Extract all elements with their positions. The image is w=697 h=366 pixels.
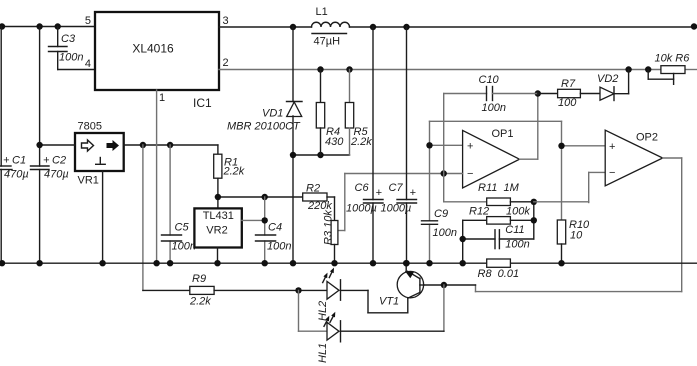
node R9 feed bbox=[140, 142, 146, 148]
node VT1 base branch bbox=[441, 282, 447, 288]
wire C2 branch bbox=[39, 27, 41, 264]
svg-text:VR1: VR1 bbox=[78, 175, 99, 187]
node HL1 feed bbox=[295, 287, 301, 293]
capacitor C11 bbox=[463, 224, 534, 251]
node C4 top bbox=[262, 194, 268, 200]
wire 7805 output 5V bbox=[124, 142, 218, 148]
wire pin1 to ground bbox=[156, 90, 158, 263]
node gnd pin1 bbox=[153, 260, 159, 266]
node gnd C9 bbox=[426, 260, 432, 266]
wire OP2 inverting feed bbox=[534, 172, 605, 202]
capacitor C2 bbox=[31, 155, 69, 181]
node gnd C1 bbox=[0, 260, 5, 266]
svg-text:100n: 100n bbox=[267, 241, 291, 253]
node gnd C7 bbox=[403, 260, 409, 266]
node gnd C5 bbox=[167, 260, 173, 266]
svg-text:VT1: VT1 bbox=[379, 296, 399, 308]
resistor R7 bbox=[538, 78, 600, 109]
svg-text:100n: 100n bbox=[505, 239, 529, 251]
node VD2 cathode rail bbox=[625, 66, 631, 72]
wire R9 feed bbox=[142, 145, 144, 290]
wire R12 C11 left vertical bbox=[460, 220, 466, 263]
node output terminal bbox=[691, 23, 697, 29]
svg-text:5: 5 bbox=[85, 15, 91, 27]
wire R11 feed bbox=[444, 174, 487, 202]
capacitor C10 bbox=[444, 74, 538, 174]
IC U1 XL4016 bbox=[85, 12, 229, 110]
svg-text:TL431: TL431 bbox=[203, 210, 234, 222]
svg-text:10k R6: 10k R6 bbox=[655, 53, 691, 65]
node R5 top bbox=[346, 66, 352, 72]
resistor R8 shunt bbox=[478, 259, 520, 280]
svg-text:VD1: VD1 bbox=[262, 108, 283, 120]
resistor R12 bbox=[463, 206, 534, 225]
regulator VR1 7805 bbox=[75, 121, 124, 187]
svg-text:OP2: OP2 bbox=[636, 132, 658, 144]
svg-text:100n: 100n bbox=[59, 52, 83, 64]
wire OP1 plus to OP2 plus link bbox=[430, 121, 606, 220]
node TL431 ref bbox=[262, 217, 268, 223]
svg-text:−: − bbox=[609, 167, 615, 179]
wire 7805 ground bbox=[102, 171, 104, 263]
node R4 bottom bbox=[317, 152, 323, 158]
wire OP2 output loop bbox=[476, 158, 682, 292]
svg-text:IC1: IC1 bbox=[193, 96, 212, 110]
wire OP1 output to node bbox=[520, 90, 542, 159]
capacitor C7 bbox=[381, 182, 417, 215]
svg-text:C1: C1 bbox=[12, 155, 26, 167]
svg-text:OP1: OP1 bbox=[492, 128, 514, 140]
resistor R2 bbox=[303, 183, 335, 221]
svg-text:R11 1M: R11 1M bbox=[478, 182, 520, 194]
wire pin3 switch node bbox=[219, 24, 312, 30]
svg-text:3: 3 bbox=[223, 15, 229, 27]
svg-text:2.2k: 2.2k bbox=[223, 166, 245, 178]
svg-text:100n: 100n bbox=[482, 102, 506, 114]
node OP1 out top bbox=[535, 90, 541, 96]
wire TL431 cathode node bbox=[215, 194, 303, 200]
transistor VT1 bbox=[368, 263, 424, 313]
node OP1 minus bbox=[441, 170, 447, 176]
svg-text:100: 100 bbox=[558, 97, 577, 109]
capacitor C6 bbox=[346, 182, 383, 215]
wire VD1 R4 R5 bottom bbox=[290, 152, 350, 158]
node input top-left bbox=[0, 23, 5, 29]
svg-text:VR2: VR2 bbox=[206, 225, 227, 237]
svg-text:R7: R7 bbox=[561, 78, 576, 90]
svg-text:2.2k: 2.2k bbox=[189, 296, 211, 308]
svg-text:C3: C3 bbox=[61, 33, 76, 45]
svg-text:1000µ: 1000µ bbox=[346, 203, 377, 215]
wire HL1 anode feed bbox=[299, 290, 328, 331]
resistor R5 bbox=[345, 70, 372, 156]
svg-text:XL4016: XL4016 bbox=[132, 42, 174, 56]
node gnd C2 bbox=[36, 260, 42, 266]
led HL1 bbox=[317, 312, 341, 363]
node C5 top bbox=[167, 142, 173, 148]
svg-text:R3 10k: R3 10k bbox=[323, 210, 335, 245]
diode VD2 bbox=[597, 70, 629, 101]
svg-text:1: 1 bbox=[159, 92, 165, 104]
svg-text:C10: C10 bbox=[479, 74, 500, 86]
svg-text:VD2: VD2 bbox=[597, 73, 618, 85]
node gnd R12 C11 bbox=[460, 260, 466, 266]
svg-text:C9: C9 bbox=[434, 208, 448, 220]
node VT1 emitter bbox=[403, 260, 409, 266]
node OP2 plus bbox=[558, 143, 564, 149]
svg-text:R2: R2 bbox=[306, 183, 320, 195]
capacitor C3 bbox=[49, 33, 84, 64]
svg-text:47µH: 47µH bbox=[314, 36, 341, 48]
node VD1 line bbox=[290, 152, 296, 158]
node 7805 input bbox=[36, 142, 42, 148]
svg-text:470µ: 470µ bbox=[44, 169, 69, 181]
wire R11 R12 C11 right node bbox=[531, 199, 537, 239]
svg-text:7805: 7805 bbox=[78, 121, 102, 133]
potentiometer R6 bbox=[648, 53, 690, 85]
svg-text:2: 2 bbox=[223, 57, 229, 69]
node gnd VD1 bbox=[290, 260, 296, 266]
svg-text:C6: C6 bbox=[355, 182, 370, 194]
wire C5 branch bbox=[169, 145, 171, 263]
node gnd C6 bbox=[370, 260, 376, 266]
svg-text:+: + bbox=[609, 141, 615, 153]
svg-text:HL1: HL1 bbox=[317, 343, 329, 363]
svg-text:L1: L1 bbox=[316, 6, 328, 18]
svg-text:C4: C4 bbox=[268, 222, 282, 234]
svg-text:+: + bbox=[410, 187, 417, 199]
IC VR2 TL431 bbox=[194, 208, 264, 263]
svg-text:2.2k: 2.2k bbox=[350, 136, 372, 148]
node R6 wiper rail bbox=[645, 66, 651, 72]
wire 7805 input bbox=[36, 142, 75, 148]
wire feedback R3 tap to OP1 inverting bbox=[338, 174, 444, 231]
node C3 top bbox=[55, 23, 61, 29]
node R12 right bbox=[531, 217, 537, 223]
node gnd R10 bbox=[558, 260, 564, 266]
node gnd 7805 bbox=[99, 260, 105, 266]
resistor R3 bbox=[323, 210, 338, 264]
node gnd C4 bbox=[262, 260, 268, 266]
svg-text:+: + bbox=[467, 140, 473, 152]
wire HL1 cathode return bbox=[341, 285, 444, 331]
wire VT1 base line bbox=[424, 282, 476, 288]
node gnd R3 bbox=[331, 260, 337, 266]
capacitor C5 bbox=[162, 222, 196, 253]
node OP1 plus bbox=[426, 142, 432, 148]
resistor R9 bbox=[143, 273, 327, 308]
svg-text:C11: C11 bbox=[505, 224, 524, 236]
svg-text:+: + bbox=[3, 155, 10, 167]
wire OP1 noninverting branch bbox=[426, 121, 462, 263]
capacitor C9 bbox=[422, 208, 457, 239]
node C6 top bbox=[370, 24, 376, 30]
svg-text:1000µ: 1000µ bbox=[381, 203, 412, 215]
svg-text:100n: 100n bbox=[172, 241, 196, 253]
svg-text:10: 10 bbox=[570, 230, 583, 242]
node C7 top bbox=[403, 24, 409, 30]
svg-text:+: + bbox=[376, 187, 383, 199]
svg-text:430: 430 bbox=[325, 136, 344, 148]
node R11 right bbox=[531, 199, 537, 205]
node R1 bottom bbox=[215, 194, 221, 200]
svg-text:MBR 20100CT: MBR 20100CT bbox=[227, 121, 301, 133]
wire C7 branch bbox=[406, 27, 408, 263]
wire ground rail bbox=[0, 260, 697, 266]
resistor R1 bbox=[214, 145, 245, 208]
wire C3 branch / pin4 bbox=[58, 27, 95, 70]
svg-text:R8 0.01: R8 0.01 bbox=[478, 268, 520, 280]
inductor L1 bbox=[312, 6, 350, 48]
node gnd TL431 bbox=[214, 260, 220, 266]
resistor R11 bbox=[478, 182, 534, 206]
svg-text:R9: R9 bbox=[192, 273, 206, 285]
op-amp U3 OP2 bbox=[605, 130, 663, 186]
wire output top rail bbox=[350, 23, 697, 30]
op-amp U2 OP1 bbox=[463, 128, 520, 188]
svg-text:C7: C7 bbox=[389, 182, 404, 194]
resistor R10 bbox=[557, 219, 590, 263]
svg-text:4: 4 bbox=[85, 58, 91, 70]
wire top input rail bbox=[0, 23, 95, 29]
svg-text:C5: C5 bbox=[175, 222, 190, 234]
resistor R4 bbox=[316, 70, 344, 156]
node VD1 top bbox=[290, 24, 296, 30]
svg-text:470µ: 470µ bbox=[4, 169, 29, 181]
node C11 left bbox=[460, 236, 466, 242]
svg-text:100n: 100n bbox=[433, 227, 457, 239]
svg-text:C2: C2 bbox=[52, 155, 66, 167]
capacitor C4 bbox=[256, 222, 292, 253]
wire pin2 sense rail bbox=[219, 66, 697, 72]
diode VD1 bbox=[227, 27, 302, 263]
led HL2 bbox=[317, 268, 368, 321]
svg-text:R12: R12 bbox=[469, 206, 489, 218]
wire C1 branch bbox=[0, 27, 2, 264]
svg-text:100k: 100k bbox=[506, 206, 530, 218]
node R4 top bbox=[317, 66, 323, 72]
wire C4 branch bbox=[262, 197, 268, 263]
capacitor C1 bbox=[0, 155, 29, 181]
svg-text:−: − bbox=[467, 168, 473, 180]
node C2 top bbox=[36, 23, 42, 29]
wire OP1 inverting input bbox=[441, 170, 463, 176]
svg-text:+: + bbox=[43, 155, 50, 167]
wire C6 branch bbox=[372, 27, 374, 263]
